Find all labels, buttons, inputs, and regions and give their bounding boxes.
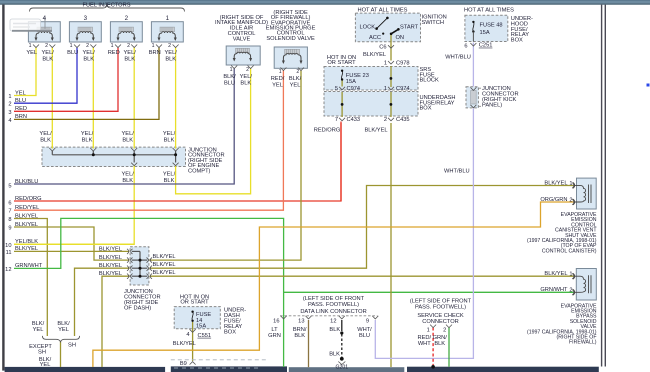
svg-text:BLK: BLK — [164, 137, 175, 143]
svg-text:1: 1 — [29, 43, 32, 49]
svg-text:ORG/GRN: ORG/GRN — [540, 197, 567, 203]
svg-text:SH: SH — [68, 343, 76, 349]
svg-text:5: 5 — [335, 86, 338, 92]
svg-text:4: 4 — [8, 118, 11, 124]
svg-text:YEL/: YEL/ — [163, 172, 176, 178]
svg-text:1: 1 — [384, 60, 387, 66]
svg-text:BLK/: BLK/ — [57, 321, 70, 327]
svg-text:BLK: BLK — [294, 333, 305, 339]
svg-text:4: 4 — [43, 15, 47, 22]
svg-text:12: 12 — [5, 267, 11, 273]
svg-text:BLK/: BLK/ — [289, 76, 302, 82]
svg-text:YEL/BLK: YEL/BLK — [15, 239, 38, 245]
svg-text:BLOCK: BLOCK — [420, 78, 439, 84]
svg-text:ON: ON — [396, 35, 405, 41]
svg-text:YEL/: YEL/ — [42, 50, 55, 56]
svg-text:RED/ORG: RED/ORG — [314, 128, 341, 134]
svg-text:BLK/YEL: BLK/YEL — [99, 271, 122, 277]
svg-text:2: 2 — [45, 43, 48, 49]
svg-text:BLU: BLU — [359, 333, 370, 339]
svg-text:2: 2 — [246, 67, 249, 73]
svg-text:2: 2 — [443, 328, 446, 334]
svg-text:8: 8 — [8, 217, 11, 223]
svg-text:OR START: OR START — [180, 300, 209, 306]
svg-text:C435: C435 — [396, 117, 410, 123]
svg-text:B9: B9 — [180, 361, 187, 367]
svg-text:6: 6 — [464, 44, 467, 50]
svg-text:BLK: BLK — [240, 81, 251, 87]
svg-text:YEL/: YEL/ — [83, 50, 96, 56]
svg-text:HOT AT ALL TIMES: HOT AT ALL TIMES — [358, 8, 408, 14]
svg-text:BLK/YEL: BLK/YEL — [99, 263, 122, 269]
svg-text:BLU: BLU — [224, 81, 235, 87]
svg-text:GRN/WHT: GRN/WHT — [15, 263, 43, 269]
svg-text:BLK/YEL: BLK/YEL — [173, 341, 196, 347]
svg-text:10: 10 — [5, 243, 11, 249]
svg-text:WHT/: WHT/ — [357, 327, 372, 333]
svg-text:12: 12 — [330, 318, 336, 324]
svg-text:BLK/YEL: BLK/YEL — [544, 180, 567, 186]
svg-text:15A: 15A — [480, 30, 490, 36]
svg-text:C433: C433 — [347, 117, 361, 123]
svg-text:BLK/YEL: BLK/YEL — [153, 270, 176, 276]
svg-text:11: 11 — [6, 250, 12, 256]
svg-text:YEL: YEL — [15, 90, 26, 96]
svg-text:BLK/YEL: BLK/YEL — [363, 52, 386, 58]
svg-text:SOLENOID VALVE: SOLENOID VALVE — [266, 36, 315, 42]
svg-text:YEL: YEL — [58, 327, 69, 333]
svg-text:BOX: BOX — [511, 38, 523, 44]
svg-text:1: 1 — [8, 94, 11, 100]
svg-text:WHT/BLU: WHT/BLU — [444, 169, 470, 175]
svg-text:BLK/YEL: BLK/YEL — [15, 213, 38, 219]
svg-text:G201: G201 — [335, 364, 348, 370]
svg-text:4: 4 — [186, 332, 189, 338]
svg-text:YEL: YEL — [40, 362, 51, 368]
svg-text:BRN/: BRN/ — [293, 327, 307, 333]
svg-text:1: 1 — [166, 15, 170, 22]
svg-text:YEL: YEL — [26, 50, 37, 56]
svg-text:BLK/YEL: BLK/YEL — [99, 246, 122, 252]
svg-text:YEL/: YEL/ — [163, 131, 176, 137]
svg-text:7: 7 — [335, 117, 338, 123]
svg-text:BLK/: BLK/ — [223, 74, 236, 80]
svg-text:BLK: BLK — [434, 341, 445, 347]
svg-text:YEL/: YEL/ — [165, 50, 178, 56]
svg-text:13: 13 — [298, 318, 304, 324]
svg-text:RED: RED — [15, 106, 27, 112]
svg-text:FUSE 48: FUSE 48 — [480, 23, 503, 29]
svg-text:YEL/: YEL/ — [122, 131, 135, 137]
svg-text:BLK/YEL: BLK/YEL — [544, 271, 567, 277]
svg-text:YEL/: YEL/ — [122, 172, 135, 178]
svg-text:7: 7 — [8, 209, 11, 215]
svg-text:COMPT): COMPT) — [188, 169, 211, 175]
svg-text:BLU: BLU — [15, 98, 26, 104]
svg-text:2: 2 — [569, 197, 572, 203]
svg-text:BLK: BLK — [82, 137, 93, 143]
svg-text:FUEL INJECTORS: FUEL INJECTORS — [82, 3, 130, 9]
svg-text:VALVE: VALVE — [233, 36, 251, 42]
svg-text:C251: C251 — [479, 43, 493, 49]
svg-text:BLK: BLK — [329, 327, 340, 333]
svg-text:YEL: YEL — [290, 83, 301, 89]
svg-text:YEL/: YEL/ — [81, 131, 94, 137]
svg-text:YEL/: YEL/ — [124, 50, 137, 56]
svg-text:1: 1 — [569, 181, 572, 187]
svg-text:BLU: BLU — [67, 50, 78, 56]
svg-text:FIREWALL): FIREWALL) — [569, 340, 597, 346]
svg-text:GRN/: GRN/ — [433, 335, 448, 341]
svg-text:5: 5 — [8, 183, 11, 189]
svg-text:OF DASH): OF DASH) — [124, 305, 151, 311]
svg-text:1: 1 — [230, 67, 233, 73]
svg-text:1: 1 — [427, 328, 430, 334]
svg-text:BLK/YEL: BLK/YEL — [153, 254, 176, 260]
svg-text:C551: C551 — [198, 333, 212, 339]
svg-text:1: 1 — [569, 272, 572, 278]
svg-text:2: 2 — [569, 288, 572, 294]
svg-text:BRN: BRN — [149, 50, 161, 56]
svg-text:RED/YEL: RED/YEL — [15, 205, 39, 211]
svg-text:2: 2 — [86, 43, 89, 49]
svg-text:BLK/YEL: BLK/YEL — [15, 246, 38, 252]
svg-text:3: 3 — [8, 110, 11, 116]
svg-text:BOX: BOX — [224, 329, 236, 335]
svg-text:LOCK: LOCK — [360, 25, 376, 31]
svg-text:15A: 15A — [196, 323, 206, 329]
svg-text:BLK: BLK — [122, 178, 133, 184]
svg-text:2: 2 — [127, 43, 130, 49]
svg-text:YEL: YEL — [272, 83, 283, 89]
svg-text:LT: LT — [271, 327, 278, 333]
svg-text:BLK: BLK — [124, 57, 135, 63]
svg-text:1: 1 — [152, 43, 155, 49]
svg-text:1: 1 — [279, 69, 282, 75]
svg-text:RED/: RED/ — [271, 76, 285, 82]
svg-text:YEL/: YEL/ — [39, 131, 52, 137]
svg-text:2: 2 — [125, 15, 129, 22]
svg-text:OR START: OR START — [327, 60, 356, 66]
svg-text:CONNECTOR: CONNECTOR — [422, 319, 459, 325]
svg-text:BLK/YEL: BLK/YEL — [364, 128, 387, 134]
svg-text:BLK: BLK — [83, 57, 94, 63]
svg-text:2: 2 — [296, 69, 299, 75]
svg-text:C978: C978 — [396, 60, 410, 66]
svg-text:BLK: BLK — [122, 137, 133, 143]
svg-text:BLK: BLK — [40, 137, 51, 143]
svg-text:6: 6 — [8, 201, 11, 207]
svg-text:ACC: ACC — [369, 35, 381, 41]
svg-text:RED/ORG: RED/ORG — [15, 196, 42, 202]
svg-text:HOT AT ALL TIMES: HOT AT ALL TIMES — [464, 8, 514, 14]
svg-text:BLK/YEL: BLK/YEL — [153, 262, 176, 268]
svg-text:WHT: WHT — [418, 341, 431, 347]
svg-text:2: 2 — [8, 102, 11, 108]
svg-text:1: 1 — [70, 43, 73, 49]
svg-text:15A: 15A — [346, 79, 356, 85]
svg-text:2: 2 — [384, 117, 387, 123]
svg-text:PASS. FOOTWELL): PASS. FOOTWELL) — [415, 304, 466, 310]
svg-text:SH: SH — [38, 350, 46, 356]
svg-text:DATA LINK CONNECTOR: DATA LINK CONNECTOR — [300, 309, 366, 315]
svg-text:RED/: RED/ — [418, 335, 432, 341]
svg-text:2: 2 — [168, 43, 171, 49]
svg-text:PANEL): PANEL) — [482, 103, 502, 109]
svg-text:BRN: BRN — [15, 114, 27, 120]
svg-text:SWITCH: SWITCH — [422, 20, 444, 26]
svg-text:BLK: BLK — [329, 352, 340, 358]
svg-text:BLK/YEL: BLK/YEL — [15, 222, 38, 228]
svg-text:9: 9 — [366, 318, 369, 324]
svg-text:16: 16 — [273, 318, 279, 324]
svg-text:9: 9 — [8, 226, 11, 232]
svg-text:YEL/: YEL/ — [240, 74, 253, 80]
svg-text:CONTROL CANISTER): CONTROL CANISTER) — [542, 248, 597, 254]
svg-text:C974: C974 — [396, 86, 410, 92]
svg-text:BLK: BLK — [164, 178, 175, 184]
svg-text:RED: RED — [108, 50, 120, 56]
svg-text:BLK: BLK — [42, 57, 53, 63]
svg-text:YEL: YEL — [33, 327, 44, 333]
svg-text:C974: C974 — [347, 86, 361, 92]
svg-text:1: 1 — [111, 43, 114, 49]
svg-text:PASS. FOOTWELL): PASS. FOOTWELL) — [308, 302, 359, 308]
svg-text:BOX: BOX — [420, 106, 432, 112]
svg-text:GRN/WHT: GRN/WHT — [540, 287, 568, 293]
svg-text:BLK/YEL: BLK/YEL — [99, 255, 122, 261]
svg-text:3: 3 — [84, 15, 88, 22]
svg-text:C6: C6 — [379, 44, 386, 50]
svg-text:WHT/BLU: WHT/BLU — [445, 55, 471, 61]
svg-text:BLK/BLU: BLK/BLU — [15, 179, 38, 185]
svg-text:GRN: GRN — [268, 333, 281, 339]
svg-text:BLK: BLK — [165, 57, 176, 63]
svg-text:BLK/: BLK/ — [32, 321, 45, 327]
svg-text:START: START — [400, 25, 419, 31]
svg-text:1: 1 — [384, 86, 387, 92]
